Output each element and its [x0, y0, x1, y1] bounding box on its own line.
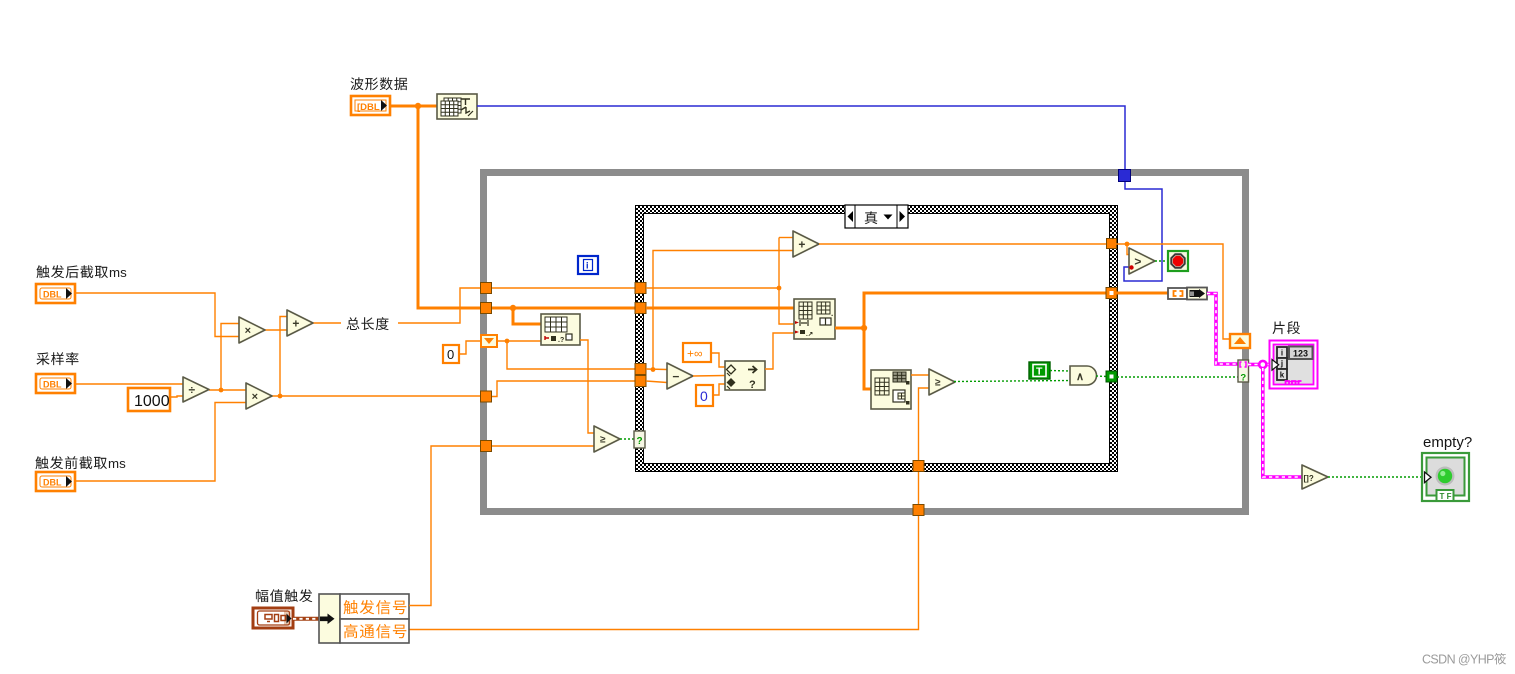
unbundle field 触发信号: [343, 600, 406, 614]
label empty?: [1423, 434, 1472, 451]
label 波形数据: [351, 77, 408, 90]
wire 0 to in-range: [713, 384, 725, 395]
wire junction up to add: [280, 317, 287, 397]
shift register right: [1230, 334, 1250, 348]
wire 高通信号 up to compare: [919, 388, 930, 460]
wire 采样率 to divide: [75, 383, 183, 385]
wire to add top / subset index: [779, 238, 794, 325]
wire 总长度 inside loop: [492, 287, 635, 289]
indicator 片段 (array of clusters): [1270, 341, 1318, 389]
wire case add out: [819, 243, 1107, 245]
tunnel case offset: [635, 364, 646, 375]
wire index icon to compare: [580, 340, 594, 433]
svg-text:?: ?: [637, 436, 643, 447]
svg-text:DBL: DBL: [43, 478, 62, 488]
terminal 触发后截取ms (DBL): [36, 284, 75, 303]
junction array in loop: [510, 305, 516, 311]
add node (case): [793, 231, 819, 257]
tunnel case 总长度: [635, 283, 646, 294]
wire array branch to index icon: [513, 308, 541, 324]
tunnel loop bottom 高通信号: [913, 505, 924, 516]
label 采样率: [36, 352, 78, 365]
constant 0 (lower limit): [696, 385, 713, 406]
wire case array to subset: [646, 307, 794, 310]
svg-text:.?: .?: [558, 337, 564, 344]
terminal 触发前截取ms (DBL): [36, 472, 75, 491]
svg-text:DBL: DBL: [43, 380, 62, 390]
junction multiply2 out: [278, 394, 283, 399]
wire +∞ to in-range: [711, 353, 725, 367]
label 触发后截取ms: [36, 265, 127, 280]
wire label 总长度: [341, 313, 398, 332]
svg-text:.↗: .↗: [806, 331, 814, 338]
wire in-range to subset length: [765, 333, 794, 369]
wire multiply1 to add: [265, 329, 287, 331]
wire shift register to case: [507, 341, 635, 369]
svg-text:CSDN @YHP: CSDN @YHP: [1422, 653, 1494, 667]
and node: [1070, 366, 1097, 385]
wire > to stop: [1155, 260, 1168, 262]
junction ring fragment: [1259, 361, 1266, 368]
greater-equal node (trigger): [594, 426, 620, 452]
wire empty to led: [1328, 476, 1423, 478]
array stats icon: [871, 370, 911, 409]
svg-text:i: i: [586, 261, 589, 271]
wire case 总长度: [646, 287, 779, 289]
wire and out: [1096, 375, 1107, 378]
svg-text:∧: ∧: [1076, 371, 1084, 383]
array size / waveform icon: [437, 94, 477, 119]
wire 1000 to divide: [170, 396, 183, 397]
wire subset to right tunnel: [864, 293, 1106, 328]
tunnel 波形数据 array: [481, 303, 492, 314]
wire 触发前截取ms to multiply2: [75, 403, 246, 482]
wire subtract to in-range: [693, 375, 725, 378]
wire junction to > top: [1127, 244, 1130, 255]
wire compare to and: [954, 381, 1070, 382]
indicator empty? (LED): [1422, 453, 1469, 501]
svg-text:>: >: [1134, 254, 1141, 268]
constant 0 (shift register init): [443, 345, 459, 363]
unbundle by name node: [319, 594, 409, 643]
wire subset out: [835, 327, 864, 330]
wire 波形数据 array: [390, 105, 437, 108]
label 触发前截取ms: [35, 456, 126, 471]
tunnel ? (case select): [634, 431, 645, 448]
label 片段: [1273, 321, 1301, 334]
coercion dot: [1129, 265, 1133, 269]
terminal 幅值触发 (cluster): [253, 608, 293, 628]
junction shift register: [505, 339, 510, 344]
svg-text:×: ×: [252, 391, 258, 403]
terminal 采样率 (DBL): [36, 374, 75, 393]
svg-text:DBL: DBL: [43, 290, 62, 300]
wire shift register out: [497, 340, 541, 342]
wire index to > node: [1116, 244, 1230, 339]
case selector label: [845, 205, 908, 228]
svg-text:T F: T F: [1440, 492, 1452, 501]
tunnel 总长度: [481, 283, 492, 294]
wire offset up to add: [653, 251, 793, 370]
tunnel case subarray out: [1106, 288, 1117, 299]
junction divide out: [219, 388, 224, 393]
case structure border (true case): [635, 205, 1118, 472]
wire subarray to enqueue: [1116, 292, 1168, 295]
greater-than node: [1129, 248, 1155, 274]
wire 高通信号 vertical: [409, 472, 919, 630]
svg-text:i: i: [1281, 349, 1283, 358]
svg-text:+: +: [292, 316, 299, 330]
tunnel multiply2 value: [481, 391, 492, 402]
svg-text:k: k: [1280, 371, 1285, 380]
junction index: [1125, 242, 1130, 247]
wire case offset: [646, 368, 667, 371]
wire subset down to stats icon: [864, 328, 871, 389]
wire stats to compare: [911, 374, 929, 376]
svg-text:×: ×: [245, 325, 251, 337]
constant 1000: [128, 388, 170, 411]
index array icon: [541, 314, 580, 345]
svg-text:[DBL: [DBL: [357, 102, 380, 113]
svg-text:empty?: empty?: [1423, 434, 1472, 451]
wire array size (blue): [477, 106, 1162, 281]
tunnel blue on loop top: [1119, 170, 1131, 182]
wire case length to subtract: [646, 381, 667, 383]
shift register left: [481, 335, 497, 347]
tunnel case length: [635, 376, 646, 387]
wire T to and: [1050, 370, 1070, 373]
wire 触发后截取ms to multiply: [75, 293, 239, 337]
multiply node M2: [246, 383, 272, 409]
while loop border: [484, 173, 1246, 512]
svg-text:?: ?: [1240, 373, 1246, 384]
tunnel case bottom 高通信号: [913, 461, 924, 472]
watermark CSDN: [1422, 653, 1506, 667]
wire arrow into empty? LED: [1425, 472, 1432, 483]
svg-text:−: −: [672, 369, 679, 383]
wire to case lower tunnel: [492, 381, 635, 397]
svg-text:?: ?: [749, 379, 756, 391]
svg-text:123: 123: [1293, 349, 1308, 359]
svg-text:1000: 1000: [134, 393, 170, 410]
stop terminal: [1168, 251, 1188, 271]
svg-text:ms: ms: [108, 456, 126, 471]
wire cluster (brown): [293, 617, 321, 621]
constant true [T]: [1029, 362, 1050, 379]
terminal 波形数据 (1D DBL array): [351, 96, 390, 115]
wire 0 to shift register: [459, 341, 481, 354]
wire divide out: [209, 389, 246, 391]
svg-text:[]?: []?: [1304, 474, 1314, 483]
svg-text:0: 0: [447, 347, 454, 362]
multiply node M1: [239, 317, 265, 343]
unbundle field 高通信号: [344, 624, 406, 638]
tunnel case boolean out: [1106, 371, 1117, 382]
wire fragment out: [1248, 363, 1272, 367]
wire compare to case ?: [620, 438, 634, 440]
enqueue node: [1168, 288, 1207, 300]
constant +∞: [683, 343, 711, 362]
iteration terminal [i]: [578, 256, 598, 274]
wire multiply2 out to loop: [272, 395, 486, 397]
divide node: [183, 377, 209, 402]
svg-text:.: .: [831, 309, 833, 318]
empty array? node: [1302, 465, 1328, 489]
add node A1: [287, 310, 313, 336]
subtract node: [667, 363, 693, 389]
wire queue (magenta): [1207, 294, 1238, 365]
array subset icon: [794, 299, 835, 339]
unbundle arrow: [320, 614, 335, 625]
svg-text:j: j: [1280, 359, 1283, 368]
wire 波形数据 down into loop: [418, 106, 794, 308]
tunnel case array: [635, 303, 646, 314]
svg-text:0: 0: [700, 388, 708, 404]
tunnel 触发信号: [481, 441, 492, 452]
conditional indexing tunnel: [1238, 360, 1249, 384]
wire 触发信号 to loop: [409, 446, 480, 606]
wire 触发信号 inside loop: [492, 445, 594, 447]
svg-text:÷: ÷: [189, 383, 196, 397]
junction 波形数据: [415, 103, 421, 109]
tunnel case index out: [1107, 239, 1117, 249]
svg-text:T: T: [1036, 366, 1043, 378]
wire array inside loop: [492, 307, 635, 310]
junction subset out: [861, 325, 867, 331]
wire boolean to conditional tunnel: [1117, 376, 1238, 378]
junction offset: [651, 367, 656, 372]
wire fragment down to empty check: [1263, 368, 1302, 477]
greater-equal node (level): [929, 369, 955, 395]
wire junction up to multiply1: [221, 324, 239, 391]
in range and coerce node: [725, 361, 765, 391]
svg-text:ms: ms: [109, 265, 127, 280]
svg-text:≥: ≥: [600, 435, 606, 446]
svg-text:≥: ≥: [935, 378, 941, 389]
junction 总长度 in case: [777, 286, 782, 291]
svg-text:+: +: [798, 237, 805, 251]
svg-text:+∞: +∞: [687, 347, 703, 361]
wire 总长度 (add out to loop): [313, 288, 486, 323]
label 幅值触发: [256, 589, 312, 602]
